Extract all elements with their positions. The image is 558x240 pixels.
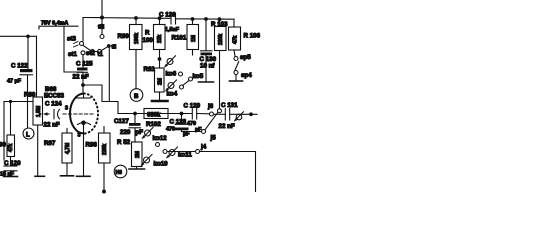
svg-text:100k: 100k [134,33,140,44]
svg-text:ko12: ko12 [153,135,168,142]
wiper ko12 [142,128,168,142]
svg-text:sp4: sp4 [241,72,252,79]
contact tII [107,44,117,50]
wire coupling row [118,113,192,115]
svg-text:3: 3 [78,133,81,139]
node C130 [204,17,208,21]
wire anode annotation lead [64,26,83,72]
svg-text:22 nF: 22 nF [219,123,235,130]
svg-text:ko6: ko6 [166,70,177,77]
wiper ko10 [141,155,169,168]
svg-text:R61: R61 [144,66,156,73]
svg-text:R: R [145,30,150,37]
svg-text:ko5: ko5 [193,73,204,80]
svg-text:R97: R97 [44,140,56,147]
grid triode1 [63,113,95,115]
resistor R90 47k [0,135,15,157]
node R101 [191,17,195,21]
svg-text:1,5M: 1,5M [36,106,42,117]
wiper j5-j6 [205,113,218,130]
ground R97 [61,175,74,177]
contact st1 [81,51,85,55]
svg-text:220k: 220k [102,144,108,155]
svg-text:R98: R98 [86,141,98,148]
wiper sp5-sp4 [235,62,239,71]
svg-text:st1: st1 [68,51,78,58]
contact j5 [202,130,217,142]
resistor R61 2M [144,66,165,100]
capacitor C128 470pF [166,114,190,138]
ground R89 [35,175,45,177]
svg-text:22 nF: 22 nF [73,73,89,80]
svg-text:C 125: C 125 [76,60,93,67]
svg-text:R 52: R 52 [117,139,131,146]
resistor R106 47k [229,19,261,56]
resistor R89 (volume pot 1.5M) [24,92,49,126]
svg-text:st3: st3 [67,36,77,43]
contact ko5 [183,73,204,86]
svg-text:L: L [26,131,30,138]
tube triode1 envelope [70,94,98,134]
svg-text:2M: 2M [158,78,164,85]
wire R90 top [10,102,12,136]
node R104 feed [249,112,253,116]
svg-text:470: 470 [187,121,196,127]
tube B66 ECC83 label [44,86,65,100]
wire j4 row [167,151,196,153]
capacitor C129 470pF [184,102,203,133]
ground C130 [199,81,214,83]
svg-text:1M: 1M [191,35,197,42]
resistor R99 100k [118,18,143,89]
node C122 top [26,35,30,39]
wire C122 lead [27,36,29,69]
annotation 75V 0.4mA [39,21,78,30]
svg-text:ko4: ko4 [167,90,178,97]
wire supply rail right [176,18,235,20]
wire R89 top [36,36,38,97]
wiper ko11 [166,147,192,159]
svg-text:R99: R99 [118,33,130,40]
contact j4 [196,143,207,153]
svg-text:47k: 47k [233,35,239,44]
ground C120 [4,176,18,178]
wiper ko6 [164,56,177,78]
wire input top [0,35,37,37]
contact R103 bottom [218,109,222,113]
resistor R52 2M [117,139,142,169]
terminal H6 [114,165,127,178]
contact st3 [67,36,84,48]
svg-text:220k: 220k [218,34,224,45]
svg-text:22k: 22k [157,34,163,43]
svg-text:ko11: ko11 [178,151,192,158]
anode triode1 [77,94,91,99]
svg-text:R102: R102 [146,121,161,128]
wire grid dogleg [83,85,118,114]
capacitor C126 1.5nF [159,12,180,33]
wiper ko4 [165,80,178,97]
capacitor C127 220pF [114,114,143,143]
svg-text:470: 470 [166,127,175,133]
node R100 [158,16,162,20]
wire tIII lead [101,18,103,35]
ground R52 [129,168,145,170]
node C127 [133,112,137,116]
node R61 top [158,57,162,61]
svg-text:sp5: sp5 [240,54,251,61]
svg-text:47k: 47k [8,143,14,152]
wire j4 right [200,151,256,153]
svg-text:220: 220 [120,129,131,136]
contact near ko4 [180,85,184,89]
svg-text:2M: 2M [135,151,141,158]
capacitor C124 22nF [44,101,63,129]
wire C129 to j6 [197,113,210,115]
wire left vertical [3,102,5,161]
capacitor C125 22nF [73,55,94,85]
node top rail [100,16,104,20]
resistor R101 1M [172,19,199,55]
svg-text:ECC83: ECC83 [44,93,65,100]
svg-text:100: 100 [143,37,154,44]
contact mid1 [156,143,160,147]
svg-text:pF: pF [136,129,144,136]
svg-text:st2: st2 [86,50,96,57]
wire R89 bottom to ground [37,125,39,176]
svg-text:R 106: R 106 [244,33,261,40]
svg-text:1,5nF: 1,5nF [165,27,180,33]
wire tII down [108,47,110,102]
contact sp5 [234,54,251,61]
wire left branch [4,101,33,103]
node R90 [9,100,12,103]
wire cathode triode1 [83,125,85,176]
capacitor C131 22nF [214,102,239,130]
wire to bottom rail [255,152,257,192]
wire top feed [101,0,103,18]
contact tIII [98,25,105,39]
resistor R97 [44,129,72,176]
svg-text:j5: j5 [210,135,217,142]
resistor R98 220k [86,127,111,192]
svg-text:pF: pF [195,127,202,133]
node R98 rail [102,190,106,194]
wire C128 to j5 [182,131,202,133]
contact j6 [207,103,214,116]
svg-text:C 124: C 124 [45,101,62,108]
wire C122 to L [27,76,29,129]
svg-text:C 122: C 122 [11,63,28,70]
ground R61 [152,100,168,103]
capacitor C120 15nF [0,157,21,178]
cathode triode1 [78,121,91,126]
node C128 [180,112,184,116]
contact near ko6 [179,72,183,76]
node R99 [134,16,138,20]
capacitor C130 10nF [200,19,217,82]
svg-text:680k: 680k [147,113,161,119]
wire anode triode1 [82,85,84,94]
svg-text:t1: t1 [98,51,104,58]
svg-text:pF: pF [183,132,190,138]
svg-text:j4: j4 [200,143,207,150]
ground sp4 [230,80,243,82]
wiper grid triode2 [234,112,244,122]
svg-text:tIII: tIII [98,25,105,31]
svg-text:90: 90 [0,142,6,149]
node grid triode1 [81,83,85,87]
svg-text:10 nf: 10 nf [200,63,215,70]
svg-text:C 126: C 126 [159,12,176,19]
contact sp4 [234,71,252,81]
resistor R102 680k [144,109,168,129]
svg-text:75V 0,4mA: 75V 0,4mA [41,21,68,27]
capacitor C122 [7,63,33,85]
svg-text:R101: R101 [172,35,187,42]
wire C131 to grid triode2 [230,113,257,115]
svg-text:4,7M: 4,7M [65,143,71,154]
svg-text:B: B [134,93,139,100]
svg-text:3: 3 [65,106,68,112]
svg-text:ko10: ko10 [154,160,169,167]
resistor R100 22k [143,18,166,68]
svg-text:j6: j6 [207,103,214,110]
svg-text:H6: H6 [116,170,123,176]
svg-text:C 131: C 131 [221,102,238,109]
ground cathode triode1 [77,175,91,177]
wire rail corner [83,18,102,42]
terminal B [130,89,143,102]
resistor R103 220k [211,21,228,109]
svg-text:C127: C127 [114,118,129,125]
terminal L [23,128,34,139]
svg-text:22 nF: 22 nF [44,122,60,129]
svg-text:47 pF: 47 pF [7,79,22,85]
node R103 [218,17,222,21]
svg-text:tII: tII [112,45,117,51]
switch wiper st [83,45,107,53]
contact mid2 [163,150,167,154]
wire supply rail [83,17,170,20]
